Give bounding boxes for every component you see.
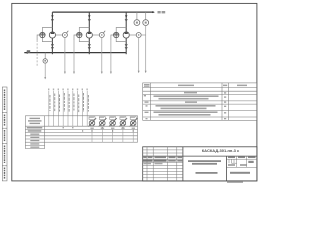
lamp HL2 (99, 117, 107, 127)
bridge wires group1 (42, 28, 52, 42)
table cell marks (63, 127, 134, 132)
trunk wire QF2 (88, 12, 90, 54)
top bus 0.4kV (52, 11, 154, 13)
current transformer TA3 (114, 32, 119, 35)
left margin attribute boxes (2, 87, 7, 181)
top bus label (158, 11, 166, 13)
wire bundle into table (49, 91, 87, 126)
trunk wire QF1 (51, 12, 53, 54)
breaker QF1 top (51, 15, 54, 17)
svg-text:КАСКАД-301-нн-3 с: КАСКАД-301-нн-3 с (202, 148, 240, 153)
lower bus (24, 52, 126, 54)
left stub wire group1 (37, 35, 40, 40)
wire KM2 to SA2 (92, 34, 99, 36)
meter PA1 (136, 12, 138, 20)
switch SA2 (99, 33, 104, 38)
wire left drop group2 (73, 40, 75, 74)
drawing frame (12, 3, 257, 181)
breaker QF2 top (88, 15, 91, 17)
parts list texts (144, 84, 247, 119)
lamp HL4 labels (120, 117, 125, 129)
table column stubs under lamps (92, 129, 133, 142)
lower bus arrow (24, 51, 28, 53)
left stub wire group2 (74, 35, 77, 40)
lamp HL3 labels (110, 117, 115, 129)
breaker QF1 bottom (51, 44, 53, 49)
wire KM1 to SA1 (56, 34, 63, 36)
contactor KM3 (123, 32, 129, 38)
breaker QF3 top (125, 15, 128, 17)
parts list table (143, 83, 257, 120)
wire SA3 to PA2 drop (141, 34, 146, 36)
left stub wire group3 (111, 35, 114, 40)
footer texts below frame (227, 181, 243, 183)
lamp HL2 labels (99, 117, 104, 129)
top bus arrow (152, 11, 155, 13)
connection table grid (25, 116, 137, 149)
wire left drop group3 (110, 40, 112, 74)
meter PA2 (145, 12, 147, 20)
switch SA3 (136, 33, 141, 38)
lamp HL1 (88, 117, 96, 127)
current transformer TA1 (40, 32, 45, 35)
contactor KM1 (49, 32, 55, 38)
trunk wire QF3 (125, 12, 127, 54)
ammeter PA3 branch (44, 53, 46, 59)
lamp HL5 (130, 117, 138, 127)
lower bus label (27, 50, 30, 53)
table header text (28, 118, 42, 124)
wire left drop group1 dashed (36, 40, 38, 66)
lamp HL4 (119, 117, 127, 127)
wire number labels (48, 89, 88, 91)
breaker QF3 bottom (125, 44, 127, 49)
title block texts (143, 157, 256, 174)
wire SA2 drop (101, 37, 103, 73)
breaker QF2 bottom (88, 44, 90, 49)
lamp HL1 labels (89, 117, 94, 129)
lamp HL5 labels (130, 117, 135, 129)
bridge wires group3 (116, 28, 126, 42)
wire SA3 drop (138, 37, 140, 73)
current transformer TA2 (77, 32, 82, 35)
lamp HL3 (109, 117, 117, 127)
title block (143, 147, 257, 181)
wire SA1 drop (64, 37, 66, 73)
bridge wires group2 (79, 28, 89, 42)
table row labels (27, 127, 43, 148)
contactor KM2 (86, 32, 92, 38)
wire PA2 drop (145, 25, 147, 73)
wire KM3 to SA3 (129, 34, 136, 36)
wire tag labels (50, 93, 89, 112)
switch SA1 (62, 33, 67, 38)
